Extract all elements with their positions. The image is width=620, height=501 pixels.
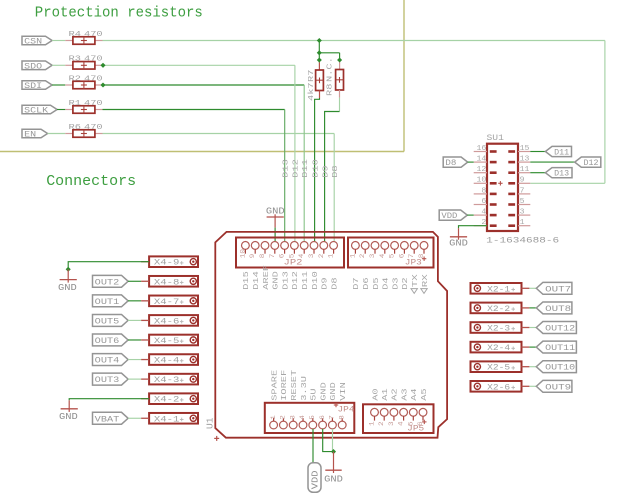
- svg-text:2: 2: [378, 421, 385, 426]
- svg-text:1: 1: [369, 421, 376, 426]
- svg-text:4: 4: [298, 254, 305, 259]
- svg-text:A4: A4: [411, 388, 419, 401]
- svg-text:2: 2: [318, 254, 325, 259]
- svg-text:OUT12: OUT12: [545, 324, 575, 334]
- svg-text:6: 6: [279, 254, 286, 259]
- svg-text:X4-5: X4-5: [154, 336, 180, 346]
- svg-text:3: 3: [289, 415, 296, 420]
- svg-text:10: 10: [477, 177, 487, 185]
- svg-text:GND: GND: [324, 475, 343, 485]
- svg-text:A2: A2: [392, 388, 400, 401]
- svg-text:X2-6: X2-6: [487, 382, 510, 392]
- svg-text:5U: 5U: [311, 388, 319, 401]
- svg-text:4: 4: [379, 254, 386, 259]
- svg-text:3.3U: 3.3U: [301, 375, 309, 400]
- svg-text:11: 11: [520, 166, 530, 174]
- svg-text:X4-3: X4-3: [154, 375, 180, 385]
- svg-text:TX: TX: [412, 274, 420, 288]
- svg-text:2: 2: [359, 254, 366, 259]
- svg-text:R8: R8: [326, 84, 334, 96]
- svg-text:8: 8: [481, 187, 486, 195]
- svg-text:JP4: JP4: [338, 406, 355, 414]
- svg-text:OUT9: OUT9: [545, 382, 571, 392]
- svg-text:R6: R6: [69, 124, 82, 132]
- svg-text:D9: D9: [322, 277, 330, 290]
- svg-text:D11: D11: [554, 150, 569, 158]
- svg-text:7: 7: [520, 187, 525, 195]
- svg-text:470: 470: [84, 31, 103, 39]
- svg-text:470: 470: [84, 56, 103, 64]
- svg-text:2: 2: [280, 415, 287, 420]
- svg-text:13: 13: [520, 156, 530, 164]
- svg-text:D10: D10: [312, 271, 320, 290]
- svg-text:X4-6: X4-6: [154, 316, 180, 326]
- svg-text:9: 9: [249, 254, 256, 259]
- svg-text:7: 7: [329, 415, 336, 420]
- svg-text:470: 470: [84, 124, 103, 132]
- svg-text:X2-1: X2-1: [487, 284, 510, 294]
- svg-text:D4: D4: [383, 277, 391, 290]
- svg-text:OUT2: OUT2: [95, 277, 120, 287]
- svg-text:D3: D3: [392, 277, 400, 290]
- svg-text:SU1: SU1: [487, 134, 505, 143]
- svg-text:Connectors: Connectors: [46, 173, 136, 190]
- svg-text:VBAT: VBAT: [95, 414, 120, 424]
- svg-text:1: 1: [349, 254, 356, 259]
- svg-text:X2-5: X2-5: [487, 363, 510, 373]
- svg-text:D13: D13: [282, 271, 290, 290]
- svg-text:7: 7: [408, 254, 415, 259]
- svg-text:5: 5: [389, 254, 396, 259]
- svg-text:A1: A1: [382, 388, 390, 401]
- svg-text:OUT3: OUT3: [95, 375, 120, 385]
- svg-text:8: 8: [259, 254, 266, 259]
- svg-text:6: 6: [319, 415, 326, 420]
- svg-text:14: 14: [477, 156, 487, 164]
- svg-text:OUT8: OUT8: [545, 304, 571, 314]
- svg-text:X4-9: X4-9: [154, 258, 180, 268]
- svg-text:470: 470: [84, 100, 103, 108]
- svg-text:5: 5: [520, 198, 525, 206]
- svg-text:SPARE: SPARE: [271, 369, 279, 401]
- svg-text:6: 6: [481, 198, 486, 206]
- svg-text:JP3: JP3: [405, 260, 422, 268]
- svg-text:D11: D11: [302, 159, 310, 178]
- svg-text:SDO: SDO: [24, 61, 42, 71]
- svg-text:3: 3: [388, 421, 395, 426]
- svg-text:OUT11: OUT11: [545, 343, 575, 353]
- svg-text:A0: A0: [372, 388, 380, 401]
- svg-text:X4-7: X4-7: [154, 297, 180, 307]
- svg-text:6: 6: [398, 254, 405, 259]
- svg-text:1: 1: [328, 254, 335, 259]
- svg-text:IOREF: IOREF: [281, 369, 289, 401]
- svg-text:CSN: CSN: [24, 37, 42, 47]
- svg-text:R1: R1: [69, 100, 82, 108]
- svg-text:AREF: AREF: [263, 264, 271, 289]
- svg-text:SDI: SDI: [24, 81, 42, 91]
- svg-text:4: 4: [481, 209, 486, 217]
- svg-text:D2: D2: [402, 277, 410, 290]
- svg-text:X2-4: X2-4: [487, 343, 510, 353]
- svg-text:OUT4: OUT4: [95, 356, 120, 366]
- svg-text:EN: EN: [24, 130, 36, 140]
- svg-text:470: 470: [84, 75, 103, 83]
- svg-text:X4-1: X4-1: [154, 414, 180, 424]
- svg-text:OUT10: OUT10: [545, 363, 575, 373]
- svg-text:X4-8: X4-8: [154, 277, 180, 287]
- svg-text:1-1634688-6: 1-1634688-6: [486, 236, 559, 246]
- svg-text:X2-3: X2-3: [487, 324, 510, 334]
- svg-text:D11: D11: [302, 271, 310, 290]
- svg-text:D12: D12: [584, 160, 599, 168]
- svg-text:OUT7: OUT7: [545, 284, 571, 294]
- svg-text:GND: GND: [59, 412, 78, 422]
- svg-text:R4: R4: [69, 31, 82, 39]
- svg-text:D13: D13: [554, 171, 569, 179]
- svg-text:N.C.: N.C.: [326, 57, 334, 82]
- svg-text:JP2: JP2: [284, 260, 303, 268]
- svg-text:12: 12: [477, 166, 487, 174]
- svg-text:Protection resistors: Protection resistors: [35, 5, 203, 22]
- svg-text:D10: D10: [312, 159, 320, 178]
- svg-text:1: 1: [520, 219, 525, 227]
- svg-text:R3: R3: [69, 56, 82, 64]
- svg-text:D7: D7: [353, 277, 361, 289]
- svg-text:7: 7: [269, 254, 276, 259]
- svg-text:3: 3: [520, 209, 525, 217]
- svg-text:A3: A3: [401, 388, 409, 401]
- svg-text:A5: A5: [421, 388, 429, 401]
- svg-text:GND: GND: [330, 382, 338, 401]
- svg-text:VDD: VDD: [441, 213, 457, 221]
- svg-text:1: 1: [270, 415, 277, 420]
- svg-text:VIN: VIN: [340, 382, 348, 401]
- svg-text:X4-4: X4-4: [154, 356, 180, 366]
- svg-text:D8: D8: [332, 165, 340, 178]
- svg-text:OUT5: OUT5: [95, 316, 120, 326]
- svg-text:JP5: JP5: [407, 426, 424, 434]
- svg-text:3: 3: [308, 254, 315, 259]
- svg-text:X2-2: X2-2: [487, 304, 510, 314]
- svg-text:3: 3: [369, 254, 376, 259]
- svg-text:D9: D9: [322, 165, 330, 178]
- svg-text:X4-2: X4-2: [154, 395, 180, 405]
- svg-text:D14: D14: [253, 271, 261, 290]
- svg-text:15: 15: [520, 145, 530, 153]
- svg-text:5: 5: [309, 415, 316, 420]
- svg-text:4: 4: [299, 415, 306, 420]
- svg-text:D13: D13: [283, 159, 291, 178]
- svg-text:SCLK: SCLK: [24, 106, 49, 116]
- svg-text:VDD: VDD: [310, 471, 320, 490]
- svg-text:RESET: RESET: [291, 369, 299, 401]
- svg-text:R2: R2: [69, 75, 82, 83]
- svg-text:RX: RX: [422, 274, 430, 288]
- svg-text:GND: GND: [449, 239, 468, 249]
- svg-text:D12: D12: [293, 159, 301, 178]
- svg-text:OUT1: OUT1: [95, 297, 120, 307]
- svg-text:GND: GND: [320, 382, 328, 401]
- svg-text:D8: D8: [445, 160, 456, 168]
- svg-text:4: 4: [398, 421, 405, 426]
- svg-text:R7: R7: [308, 70, 316, 82]
- svg-text:10: 10: [239, 249, 246, 258]
- svg-text:GND: GND: [273, 271, 281, 290]
- svg-text:U1: U1: [205, 418, 215, 430]
- svg-text:9: 9: [520, 177, 525, 185]
- svg-text:D15: D15: [243, 271, 251, 290]
- svg-text:OUT6: OUT6: [95, 336, 120, 346]
- svg-text:GND: GND: [58, 283, 77, 293]
- svg-text:4k7: 4k7: [308, 82, 316, 101]
- svg-text:5: 5: [288, 254, 295, 259]
- svg-text:D6: D6: [363, 277, 371, 290]
- svg-text:8: 8: [338, 415, 345, 420]
- svg-text:D12: D12: [292, 271, 300, 290]
- svg-text:D5: D5: [373, 277, 381, 290]
- svg-text:16: 16: [477, 145, 487, 153]
- svg-text:D8: D8: [331, 277, 339, 290]
